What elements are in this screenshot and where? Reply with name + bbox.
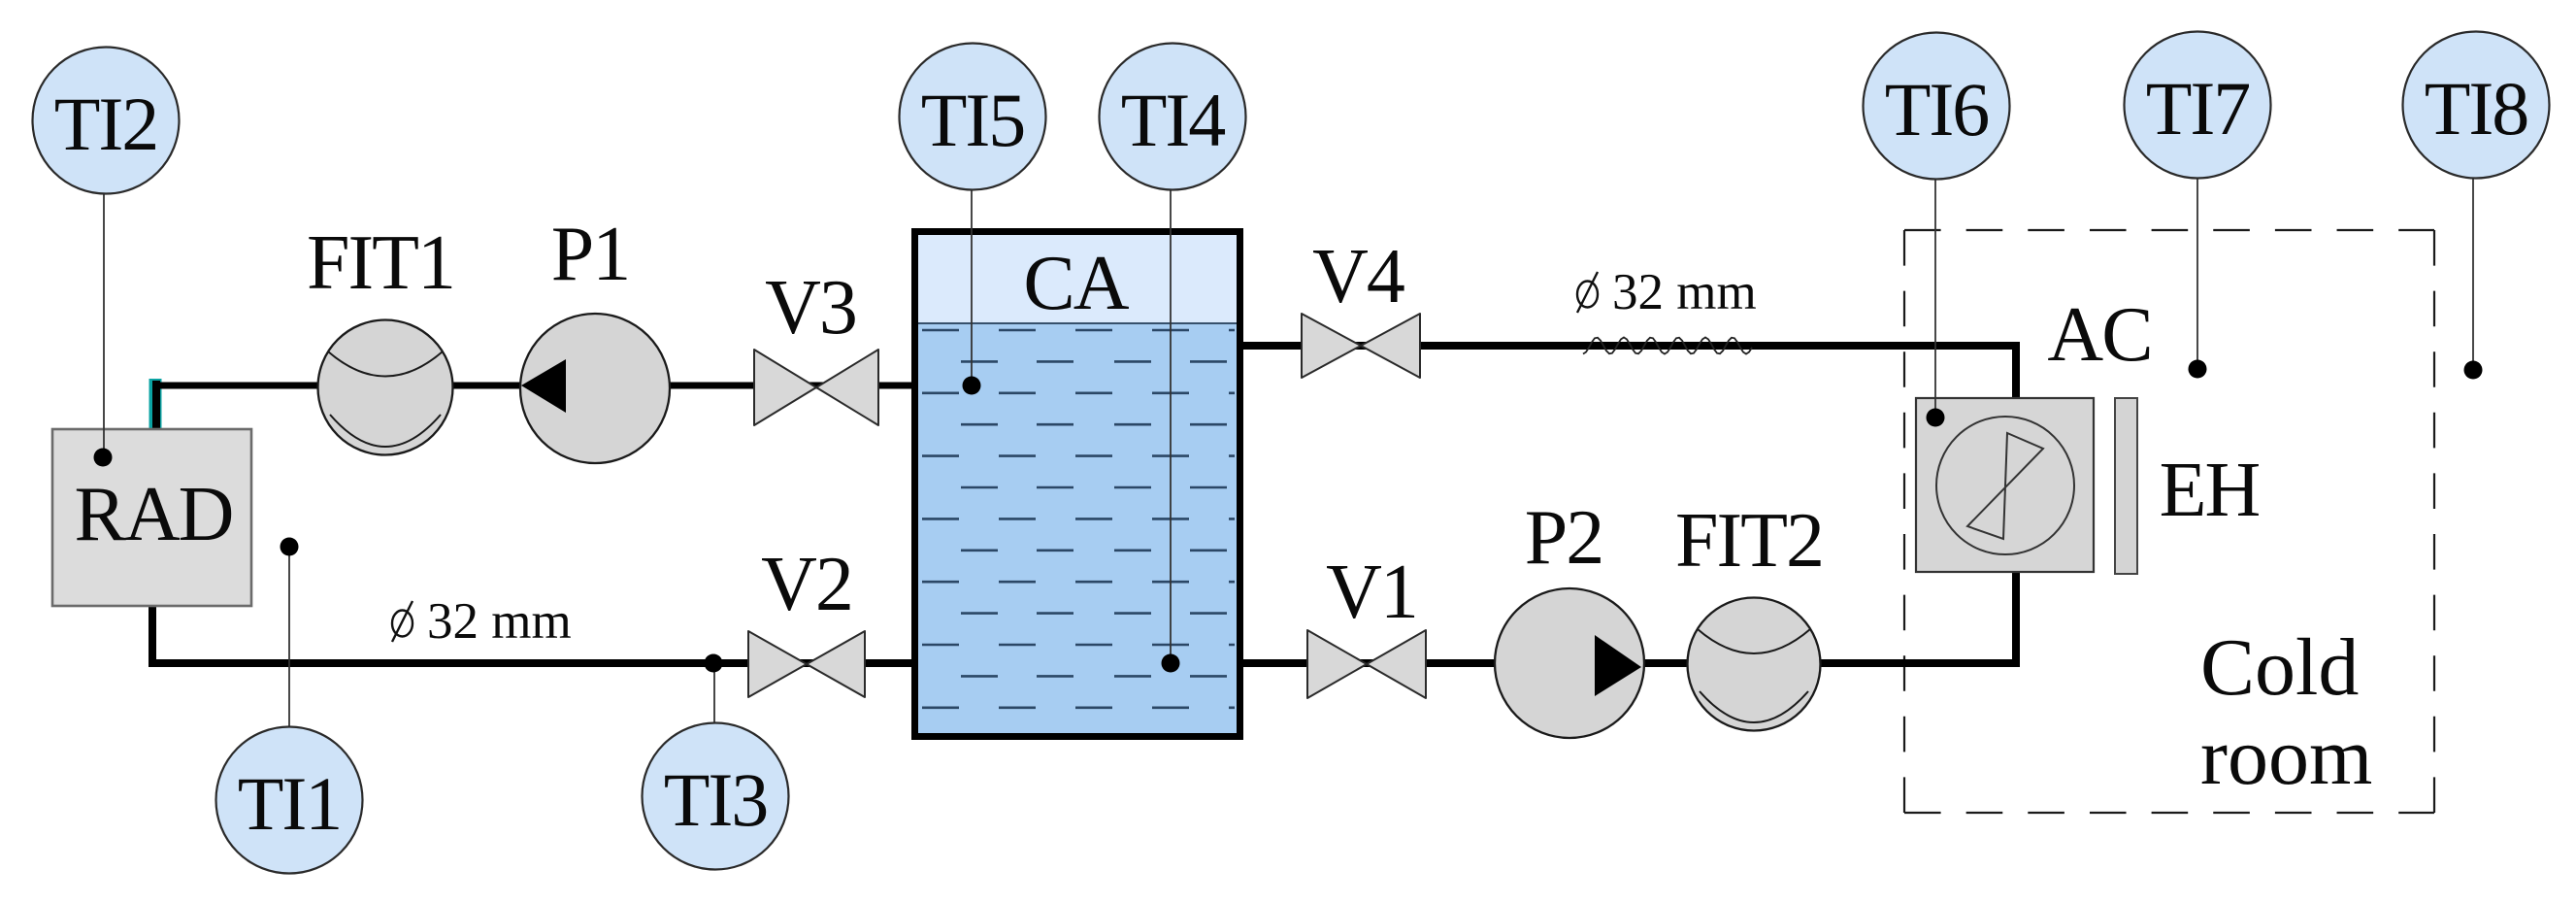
svg-text:TI7: TI7 — [2146, 66, 2250, 150]
svg-text:TI6: TI6 — [1885, 67, 1989, 151]
svg-text:RAD: RAD — [75, 472, 233, 557]
svg-text:room: room — [2200, 712, 2372, 802]
svg-text:FIT2: FIT2 — [1675, 498, 1823, 584]
svg-text:V2: V2 — [761, 542, 852, 627]
svg-text:TI2: TI2 — [54, 82, 158, 166]
svg-text:32 mm: 32 mm — [427, 593, 572, 650]
svg-text:TI8: TI8 — [2425, 66, 2528, 150]
svg-text:V3: V3 — [765, 265, 856, 351]
svg-text:P1: P1 — [551, 212, 630, 297]
svg-text:TI4: TI4 — [1121, 78, 1226, 162]
svg-text:EH: EH — [2160, 448, 2260, 533]
svg-text:P2: P2 — [1525, 495, 1603, 581]
svg-text:TI1: TI1 — [238, 761, 342, 846]
svg-text:AC: AC — [2047, 292, 2151, 378]
svg-text:FIT1: FIT1 — [307, 220, 454, 306]
svg-text:CA: CA — [1023, 241, 1129, 326]
svg-text:TI5: TI5 — [921, 78, 1025, 162]
svg-text:V4: V4 — [1312, 234, 1404, 319]
svg-text:Cold: Cold — [2200, 622, 2359, 713]
svg-text:TI3: TI3 — [664, 757, 768, 842]
svg-text:32 mm: 32 mm — [1612, 264, 1757, 320]
svg-text:V1: V1 — [1326, 550, 1417, 635]
